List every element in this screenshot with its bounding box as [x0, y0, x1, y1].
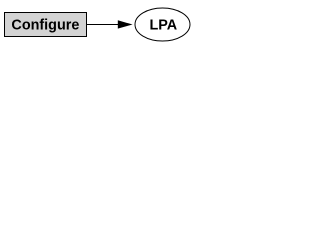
svg-text:Configure: Configure [11, 18, 79, 34]
svg-text:LPA: LPA [149, 18, 177, 34]
node LPA (ellipse) [135, 8, 190, 41]
arrowhead [118, 20, 133, 28]
wire (edge from Configure to LPA) [87, 24, 119, 26]
node Configure (gray box) [5, 13, 87, 37]
